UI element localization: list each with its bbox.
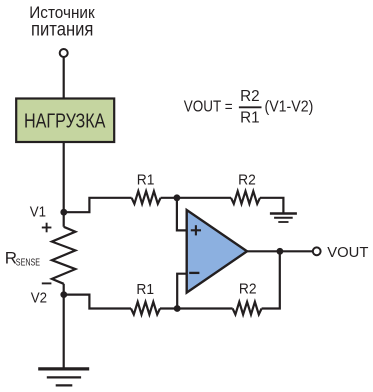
- resistor R1 (top): [132, 191, 161, 204]
- node: power source label: [29, 4, 95, 40]
- minus polarity mark: [42, 282, 52, 284]
- wire R1 to R2 (bottom): [160, 307, 233, 309]
- formula VOUT = R2/R1 (V1-V2): [184, 88, 313, 127]
- wire to op-amp + input: [177, 198, 187, 231]
- wire R2 to ground (top): [260, 198, 283, 214]
- wire to op-amp - input: [177, 274, 187, 309]
- svg-text:R1: R1: [240, 110, 260, 127]
- junction V2: [60, 291, 67, 298]
- wire load box to rsense: [63, 142, 65, 227]
- wire V1 to top R1: [64, 198, 132, 212]
- terminal: power source: [60, 49, 68, 57]
- terminal VOUT: [313, 247, 321, 255]
- op-amp U1: [187, 210, 247, 293]
- svg-text:R1: R1: [137, 171, 155, 188]
- svg-text:VOUT: VOUT: [327, 244, 368, 261]
- resistor RSENSE: [52, 227, 76, 284]
- svg-text:питания: питания: [31, 18, 93, 40]
- wire V2 to bottom R1: [64, 295, 131, 309]
- svg-text:VOUT =: VOUT =: [184, 99, 233, 116]
- junction V1: [60, 209, 67, 216]
- load box НАГРУЗКА: [16, 99, 114, 143]
- ground (main): [38, 369, 89, 386]
- ground (reference): [270, 214, 297, 223]
- junction op-amp + branch: [174, 194, 181, 201]
- wire op-amp output: [247, 250, 313, 252]
- wire rsense to ground: [63, 284, 65, 369]
- op-amp - input mark: [189, 272, 199, 274]
- formula fraction bar: [239, 106, 262, 108]
- svg-text:V2: V2: [31, 290, 47, 307]
- svg-text:SENSE: SENSE: [16, 257, 40, 269]
- junction op-amp - branch: [174, 305, 181, 312]
- svg-text:НАГРУЗКА: НАГРУЗКА: [24, 110, 106, 132]
- svg-text:R2: R2: [238, 172, 256, 189]
- label RSENSE: [5, 248, 40, 268]
- wire R2 to output node (feedback): [262, 251, 280, 308]
- svg-text:R2: R2: [240, 88, 260, 105]
- svg-text:R2: R2: [239, 281, 257, 298]
- op-amp + input mark: [191, 225, 201, 235]
- svg-text:(V1-V2): (V1-V2): [265, 99, 314, 116]
- resistor R2 (top): [231, 191, 260, 204]
- svg-text:V1: V1: [30, 204, 46, 221]
- junction output node: [277, 248, 284, 255]
- resistor R2 (bottom): [233, 302, 262, 315]
- wire R1 to R2 (top): [161, 197, 231, 199]
- resistor R1 (bottom): [131, 302, 160, 315]
- plus polarity mark: [42, 223, 52, 233]
- svg-text:R1: R1: [136, 281, 154, 298]
- wire terminal to load box: [63, 57, 65, 98]
